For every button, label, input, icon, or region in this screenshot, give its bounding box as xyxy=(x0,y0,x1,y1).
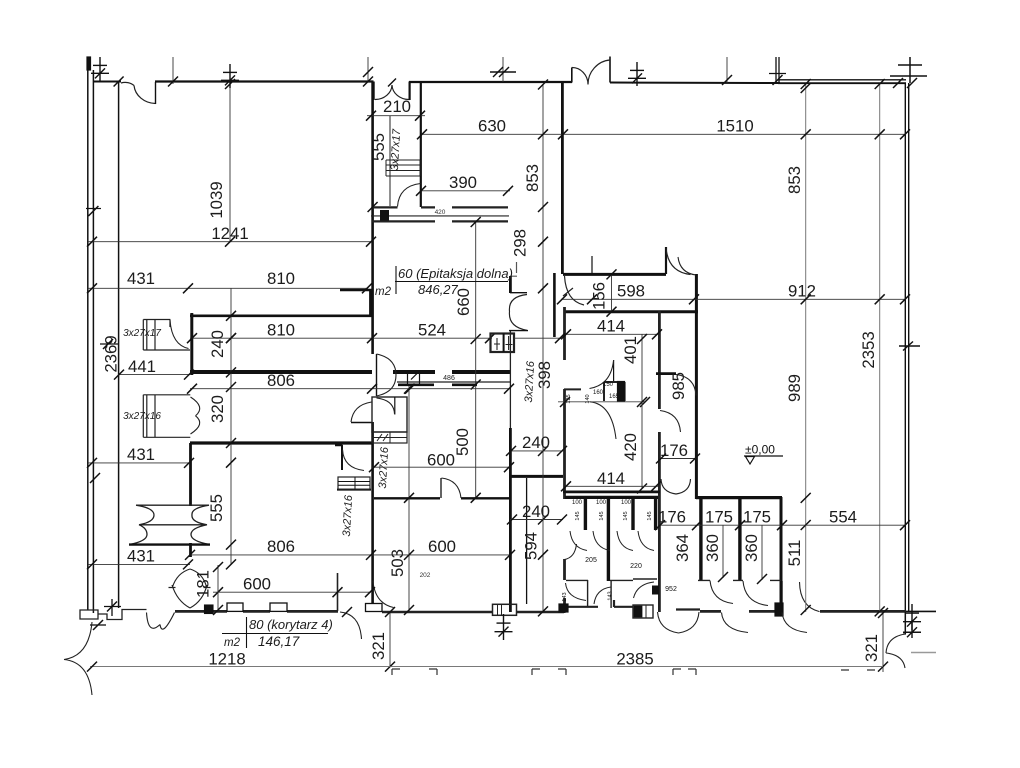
section marks bottom xyxy=(392,669,875,675)
bottom right door arcs xyxy=(886,634,905,668)
svg-text:m2: m2 xyxy=(224,637,241,649)
svg-text:240: 240 xyxy=(522,502,550,521)
wc hinge block xyxy=(653,586,659,594)
door arc x340 outside xyxy=(340,612,362,639)
svg-text:2353: 2353 xyxy=(859,331,878,368)
right small rooms partition x=701 xyxy=(699,497,702,580)
closet door arc xyxy=(343,450,365,471)
svg-text:985: 985 xyxy=(669,372,688,400)
door top-left arc xyxy=(121,82,156,103)
svg-text:176: 176 xyxy=(660,441,688,460)
svg-text:100: 100 xyxy=(621,500,632,506)
dim vertical x=409 (503) xyxy=(408,386,410,611)
dim line 524 ext xyxy=(514,337,563,339)
top wall right parapet line xyxy=(778,79,906,81)
top wall right main x780-905 xyxy=(778,82,906,84)
dim vertical x=880 (2353) xyxy=(879,84,881,612)
room414 entry door arc xyxy=(590,360,614,389)
svg-text:360: 360 xyxy=(703,534,722,562)
bottom wall pier 4 dark xyxy=(775,603,783,616)
label korytarz underline xyxy=(222,633,328,635)
dim line 176 mid xyxy=(660,458,696,460)
door scallop bottom-left xyxy=(147,613,175,630)
closet walls xyxy=(335,445,371,490)
dim line 600 bottom xyxy=(213,591,371,593)
svg-text:1039: 1039 xyxy=(207,181,226,218)
svg-text:2385: 2385 xyxy=(616,650,653,669)
bottom wall small block left xyxy=(559,604,568,612)
bottom right stub line gray xyxy=(911,652,936,654)
svg-text:431: 431 xyxy=(127,269,155,288)
band panel verticals xyxy=(408,372,420,386)
svg-text:175: 175 xyxy=(705,508,733,527)
svg-text:181: 181 xyxy=(194,570,213,598)
svg-text:3x27x16: 3x27x16 xyxy=(341,494,355,537)
thick wall y=372 x190-513 xyxy=(190,370,510,374)
double door top arcs xyxy=(572,60,610,85)
svg-text:912: 912 xyxy=(788,282,816,301)
wc area lower arc xyxy=(590,402,616,439)
svg-text:100: 100 xyxy=(572,500,583,506)
wc area inner partitions xyxy=(564,382,625,401)
dim vertical x=476 xyxy=(475,222,477,498)
svg-text:503: 503 xyxy=(388,549,407,577)
stair treads top shaft xyxy=(386,160,420,176)
axis marker left top xyxy=(91,57,109,81)
dim line 414 bottom xyxy=(565,485,658,487)
wall x=192 vertical xyxy=(190,313,193,375)
svg-text:150: 150 xyxy=(603,382,614,388)
svg-text:145: 145 xyxy=(623,511,629,520)
dim line 1039 vertical x=230 xyxy=(229,70,231,242)
stair hatch small xyxy=(338,477,370,489)
dim vertical x=612 (156) xyxy=(611,274,613,312)
module1 door leaf xyxy=(169,320,171,328)
svg-text:1510: 1510 xyxy=(716,117,753,136)
dim line 431 c y=564 xyxy=(88,563,190,565)
right small room door arc 2 xyxy=(743,581,768,606)
right small rooms partition x=740 xyxy=(738,497,741,580)
bottom doors right pair arc2 xyxy=(782,613,807,633)
bottom right axis crosses xyxy=(903,604,921,630)
corridor wall x=510 thick seg2 xyxy=(509,428,512,612)
dim vertical x=218 (181) xyxy=(217,565,219,611)
svg-text:431: 431 xyxy=(127,445,155,464)
outer wall left stub top xyxy=(87,57,91,70)
scallop window jamb right xyxy=(409,82,411,101)
korytarz top wall y=476 xyxy=(511,475,563,478)
svg-text:952: 952 xyxy=(665,586,677,593)
wc top wall y=497 xyxy=(565,496,658,499)
outer wall left line A x=88 xyxy=(87,68,89,610)
corridor wall x=527 xyxy=(526,478,528,604)
window band mid thin xyxy=(371,215,509,217)
left wall tick mid xyxy=(88,206,98,216)
dim line 806/600 y=389 xyxy=(190,388,510,390)
wc partition x=608 xyxy=(607,497,610,581)
bottom doors right pair arc3 xyxy=(800,582,820,612)
svg-text:600: 600 xyxy=(243,575,271,594)
ext line x=173 xyxy=(172,57,174,84)
svg-text:240: 240 xyxy=(208,330,227,358)
dim line 598/912 y=299 xyxy=(561,298,906,300)
svg-text:320: 320 xyxy=(208,395,227,423)
svg-text:175: 175 xyxy=(743,508,771,527)
svg-text:156: 156 xyxy=(590,282,609,310)
svg-text:846,27: 846,27 xyxy=(418,282,459,297)
label epitaksja underline xyxy=(395,281,508,283)
dim line 210 xyxy=(367,115,425,117)
top wall segment x94-121 xyxy=(93,81,121,83)
outer wall right double x=905/909 xyxy=(904,83,906,612)
wall step x=370 vertical xyxy=(369,289,372,316)
axis marker x497 top xyxy=(502,57,504,82)
dim line 600 mid y=467 xyxy=(372,466,510,468)
svg-text:500: 500 xyxy=(453,428,472,456)
dim line 810/524 y=338 xyxy=(190,337,492,339)
room 414 bottom wall y=492 xyxy=(563,490,660,493)
svg-text:60 (Epitaksja dolna): 60 (Epitaksja dolna) xyxy=(398,266,513,281)
tick on wall x347 xyxy=(342,607,352,617)
wc lower door arc 3 xyxy=(634,582,655,598)
dim vertical x=723 (360) xyxy=(722,525,724,578)
wall corner x=696 xyxy=(695,274,698,499)
door arc stub to right room xyxy=(676,375,696,396)
svg-text:398: 398 xyxy=(535,361,554,389)
svg-text:1218: 1218 xyxy=(208,650,245,669)
dim line 630/1510 y=134 xyxy=(421,133,906,135)
wc lower partition walls xyxy=(566,579,657,608)
svg-text:420: 420 xyxy=(435,209,446,216)
svg-text:853: 853 xyxy=(523,164,542,192)
bottom wall box right xyxy=(633,605,653,618)
right small rooms wall x=781 xyxy=(780,497,783,612)
svg-text:390: 390 xyxy=(449,173,477,192)
wc area dim ticks tiny xyxy=(558,401,645,403)
dim line 431/810 y=288 xyxy=(88,287,368,289)
dim vertical x=390 (321) xyxy=(389,611,391,667)
right small rooms top wall xyxy=(696,496,782,499)
svg-text:145: 145 xyxy=(599,511,605,520)
svg-text:594: 594 xyxy=(522,532,541,560)
bottom wall pier 1 xyxy=(227,603,243,611)
svg-text:143: 143 xyxy=(608,591,614,600)
bottom doors right pair arc1 xyxy=(722,613,749,633)
svg-text:240: 240 xyxy=(522,433,550,452)
svg-text:205: 205 xyxy=(585,557,597,564)
dim line 1241 xyxy=(88,241,371,243)
wc door arc 3 xyxy=(617,531,633,551)
dim line 240 korytarz xyxy=(510,450,563,452)
corridor scallop door xyxy=(661,479,691,494)
axis marker x637 xyxy=(628,62,646,86)
svg-text:100: 100 xyxy=(596,500,607,506)
wc partition x=585 xyxy=(584,497,587,530)
svg-text:401: 401 xyxy=(621,336,640,364)
door D arc xyxy=(377,354,397,396)
bottom right stub line black xyxy=(906,610,936,612)
bottom wall segments thick xyxy=(175,610,906,613)
svg-text:555: 555 xyxy=(369,133,388,161)
thick wall y=443 x190-372 xyxy=(190,441,372,444)
axis marker x777 xyxy=(775,57,777,83)
svg-text:806: 806 xyxy=(267,371,295,390)
bottom wall stub small a xyxy=(205,605,214,614)
scallop window arcs xyxy=(375,85,410,100)
svg-text:3x27x17: 3x27x17 xyxy=(389,128,403,171)
wc door arc 1 xyxy=(570,531,587,551)
room 414 right wall x=659 xyxy=(658,311,661,612)
svg-text:810: 810 xyxy=(267,321,295,340)
wc partition x=633 xyxy=(631,497,634,530)
svg-text:420: 420 xyxy=(621,433,640,461)
window band blob xyxy=(381,211,389,221)
butterfly window shape xyxy=(130,505,209,544)
stair shaft right wall x=421 xyxy=(420,82,422,208)
wall y=290 x340-372 xyxy=(340,289,372,292)
corridor wall x=510 xyxy=(509,330,511,612)
svg-text:140: 140 xyxy=(585,394,591,403)
axis marker x368 xyxy=(367,57,369,82)
svg-text:555: 555 xyxy=(207,494,226,522)
svg-text:176: 176 xyxy=(658,508,686,527)
stair shaft door arc xyxy=(398,184,421,207)
small room box x372-407 xyxy=(372,397,407,432)
door arc left of x696 top xyxy=(678,257,696,275)
svg-text:80 (korytarz 4): 80 (korytarz 4) xyxy=(249,617,333,632)
dim vertical x=762 (360) xyxy=(761,525,763,580)
corridor double door arcs xyxy=(563,276,584,305)
svg-text:321: 321 xyxy=(862,634,881,662)
dim vertical x=543 xyxy=(542,84,544,612)
svg-text:431: 431 xyxy=(127,547,155,566)
left wall tick y478 xyxy=(90,473,100,483)
dim line 390 xyxy=(420,190,510,192)
stub wall y=373 right xyxy=(656,372,676,375)
door jamb x=666 xyxy=(665,247,667,274)
bottom wall pier 2 xyxy=(270,603,287,611)
window box wall mid xyxy=(491,334,515,353)
svg-text:630: 630 xyxy=(478,117,506,136)
corridor jog top xyxy=(510,262,517,276)
module1 door arc xyxy=(170,321,189,349)
wall vertical x=372 (shaft left) xyxy=(371,82,374,612)
axis marker x727 xyxy=(726,57,728,83)
wall y=274 horizontal xyxy=(563,273,666,276)
bottom wall segments thin xyxy=(382,611,564,613)
window band upper y=207 xyxy=(372,206,508,208)
door korytarz leaf xyxy=(440,478,442,498)
svg-text:853: 853 xyxy=(785,166,804,194)
svg-text:414: 414 xyxy=(597,469,625,488)
bottom door scallop 657-700 xyxy=(658,612,700,633)
right small rooms bottom stubs xyxy=(698,579,781,581)
axis cross right wall mid xyxy=(899,342,920,351)
svg-text:360: 360 xyxy=(742,534,761,562)
axis cross left mid xyxy=(100,343,118,345)
wc area shaft block xyxy=(618,382,625,402)
dim vertical x=337 xyxy=(337,573,339,611)
svg-text:202: 202 xyxy=(420,572,431,579)
bottom wall wc segs xyxy=(564,600,700,613)
svg-text:298: 298 xyxy=(511,229,530,257)
corridor wall x=510 thick seg xyxy=(509,276,512,293)
corridor E-door xyxy=(509,295,527,331)
svg-text:806: 806 xyxy=(267,537,295,556)
door arc x564 lower xyxy=(565,544,577,560)
svg-text:146,17: 146,17 xyxy=(258,634,300,649)
window band lower y=221 xyxy=(372,220,508,222)
door D leaf x376 xyxy=(376,354,378,396)
module2 box lines xyxy=(143,395,190,438)
door korytarz arc xyxy=(442,478,462,498)
bottom-left exterior double arc xyxy=(64,622,92,695)
svg-text:145: 145 xyxy=(647,511,653,520)
svg-text:600: 600 xyxy=(427,451,455,470)
svg-text:364: 364 xyxy=(673,534,692,562)
door arc x372 low xyxy=(373,581,394,608)
door post x=592 xyxy=(591,256,593,274)
dim vertical x=806 xyxy=(805,84,807,612)
vertical butterfly door xyxy=(169,569,211,608)
svg-text:145: 145 xyxy=(575,511,581,520)
right small room door arc 1 xyxy=(710,581,733,604)
bottom-left axis cross xyxy=(104,606,121,608)
axis marker x230 top xyxy=(221,64,239,88)
axis marker right corner xyxy=(890,57,927,88)
svg-text:321: 321 xyxy=(369,632,388,660)
dim line 441 xyxy=(118,374,190,376)
svg-text:160: 160 xyxy=(593,390,604,396)
room 414 left wall x=564 xyxy=(563,307,566,612)
door arc lower right room xyxy=(660,411,681,433)
bottom wall box mid xyxy=(493,604,517,615)
top wall segment x156-373 xyxy=(155,80,374,82)
level mark underline xyxy=(744,455,783,457)
dim line bottom 1218/2385 xyxy=(90,666,883,668)
svg-text:143: 143 xyxy=(562,592,568,601)
wc door arc 2 xyxy=(593,531,610,551)
dim vertical x=642 xyxy=(641,334,643,489)
svg-text:810: 810 xyxy=(267,269,295,288)
corridor line y=385 xyxy=(397,381,510,383)
hatch strip below box xyxy=(372,432,407,443)
svg-text:486: 486 xyxy=(443,375,455,382)
wall y=498 korytarz xyxy=(374,497,510,499)
bottom right corner wall ext xyxy=(904,612,906,634)
dim line 806 bottom xyxy=(190,554,512,556)
tick wall x805 start xyxy=(801,79,811,89)
bottom box mid axis xyxy=(495,614,513,640)
top wall segment x410-572 xyxy=(409,81,572,83)
svg-text:3x27x16: 3x27x16 xyxy=(123,411,161,422)
bottom-left corner steps xyxy=(80,610,147,620)
wc door arc 4 xyxy=(638,531,654,551)
svg-text:414: 414 xyxy=(597,317,625,336)
stair corridor right wall x=554 xyxy=(553,273,556,337)
tick wall x880 start xyxy=(875,79,885,89)
wc lower door arc 2 xyxy=(594,587,611,604)
butterfly bottom wall xyxy=(129,543,210,545)
corridor wall x=562 upper xyxy=(561,82,564,274)
top wall segment x610-780 xyxy=(610,82,780,85)
room 414 top wall y=311 xyxy=(564,310,698,313)
level mark triangle xyxy=(746,457,755,465)
door arc at 666 xyxy=(666,248,691,275)
svg-text:210: 210 xyxy=(383,97,411,116)
room414 entry door chord xyxy=(613,360,615,381)
stair shaft centerline xyxy=(389,116,391,206)
svg-text:125: 125 xyxy=(566,394,572,403)
inner wall left x=118 xyxy=(118,82,120,609)
dim vertical x=883 (321) xyxy=(882,613,884,672)
svg-text:m2: m2 xyxy=(375,286,392,298)
dim line 414 top xyxy=(565,333,658,335)
wall y=316 x190-371 xyxy=(190,314,372,317)
outer wall left line B x=93 xyxy=(92,70,94,613)
scallop window jamb left xyxy=(373,82,375,101)
svg-text:511: 511 xyxy=(785,540,804,567)
svg-text:989: 989 xyxy=(785,374,804,402)
svg-text:600: 600 xyxy=(428,537,456,556)
wc partition x=655 xyxy=(654,497,657,530)
dim line 176/175/175/554 y=525 xyxy=(659,524,906,526)
bottom wall pier 3 xyxy=(366,604,383,612)
wc lower door arc 1 xyxy=(566,583,587,601)
svg-text:598: 598 xyxy=(617,282,645,301)
wall x=190 below butterfly xyxy=(189,543,192,557)
module1 box lines xyxy=(143,320,190,351)
dim line 431 b y=463 xyxy=(88,462,190,464)
dim line 240 lower xyxy=(510,519,563,521)
svg-text:441: 441 xyxy=(128,357,156,376)
double door top jambs xyxy=(571,68,573,83)
svg-text:3x27x17: 3x27x17 xyxy=(123,328,161,339)
svg-text:554: 554 xyxy=(829,508,857,527)
corridor line y=330.5 xyxy=(509,330,528,332)
label epitaksja bar xyxy=(395,266,397,294)
dim line 600 right y=469 xyxy=(562,468,564,470)
label korytarz bar xyxy=(246,617,248,648)
svg-text:165: 165 xyxy=(609,394,620,400)
dim vertical x=231 xyxy=(230,288,232,565)
svg-text:524: 524 xyxy=(418,321,446,340)
door left arc xyxy=(351,402,372,422)
svg-text:±0,00: ±0,00 xyxy=(745,443,775,457)
tick 555 bottom xyxy=(368,202,378,212)
module2 door arcs xyxy=(191,397,200,434)
wall x=190 vertical lower xyxy=(189,443,192,506)
svg-text:220: 220 xyxy=(630,563,642,570)
door left leaf y422 xyxy=(351,422,372,424)
